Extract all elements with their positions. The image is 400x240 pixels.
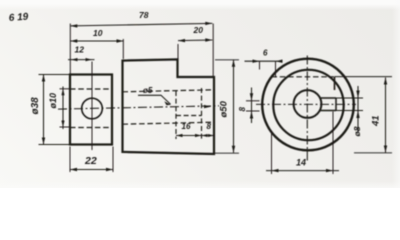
dim 78 [70,23,212,26]
body outline with step [123,59,215,154]
svg-text:ø10: ø10 [48,93,58,109]
side view vertical centerline [306,56,308,164]
body hidden line lower [123,122,215,124]
dim 20 [178,39,212,42]
svg-text:6: 6 [263,49,268,58]
hidden feature vertical right [201,88,203,139]
dim ø50 vertical [233,60,235,153]
svg-text:ø5: ø5 [143,86,153,95]
flange hidden line upper [70,88,112,90]
dim 8 left of side view [251,88,253,124]
dim ø8 right of side view [357,86,359,132]
dim ø38 vertical [43,75,45,145]
svg-text:8: 8 [207,122,212,131]
arrow on centerline [204,105,211,108]
svg-text:12: 12 [75,45,85,55]
flange hidden line lower [70,127,112,129]
dim 14 bottom of side view [266,170,339,172]
side view outer circle ø50 [262,59,354,151]
svg-text:ø50: ø50 [219,100,230,117]
centerline (part axis, front view) [58,106,219,109]
hidden chord (flat) [272,76,335,78]
keyway slot top [320,97,336,99]
dim 16 [176,135,202,137]
body hidden line upper [123,90,215,92]
svg-text:16: 16 [182,122,191,131]
svg-text:10: 10 [93,28,103,38]
svg-text:22: 22 [84,155,97,167]
hidden feature vertical left [175,91,177,139]
dim 41 right of side view [385,78,387,153]
side view middle circle ø38 [273,70,343,140]
side view bore circle [294,90,322,118]
svg-text:41: 41 [371,115,382,127]
svg-text:8: 8 [238,107,247,112]
svg-text:20: 20 [193,25,204,35]
dim 6 top of side view [245,60,283,62]
hole vertical centerline [91,62,93,151]
keyway slot end [335,98,337,111]
body hidden line middle short [176,115,202,117]
leader ø5 [138,95,171,104]
svg-text:78: 78 [139,10,149,20]
hole circle ø10 [82,98,103,119]
dim 12 [68,59,95,61]
side view horizontal centerline [256,103,356,105]
svg-text:ø38: ø38 [30,97,41,115]
svg-text:6 19: 6 19 [8,12,29,24]
svg-text:14: 14 [296,158,306,168]
notch vertical top right [334,77,336,90]
handwritten label 6 19 [8,12,29,24]
keyway ext lines right [336,97,363,99]
dim ø10 vertical small [62,87,64,130]
flange outline [70,75,112,145]
dim 22 [70,169,113,171]
keyway slot bottom [320,110,336,112]
dim 10 [70,40,123,42]
svg-text:ø8: ø8 [352,126,362,136]
dim 8 (body) [202,135,215,137]
